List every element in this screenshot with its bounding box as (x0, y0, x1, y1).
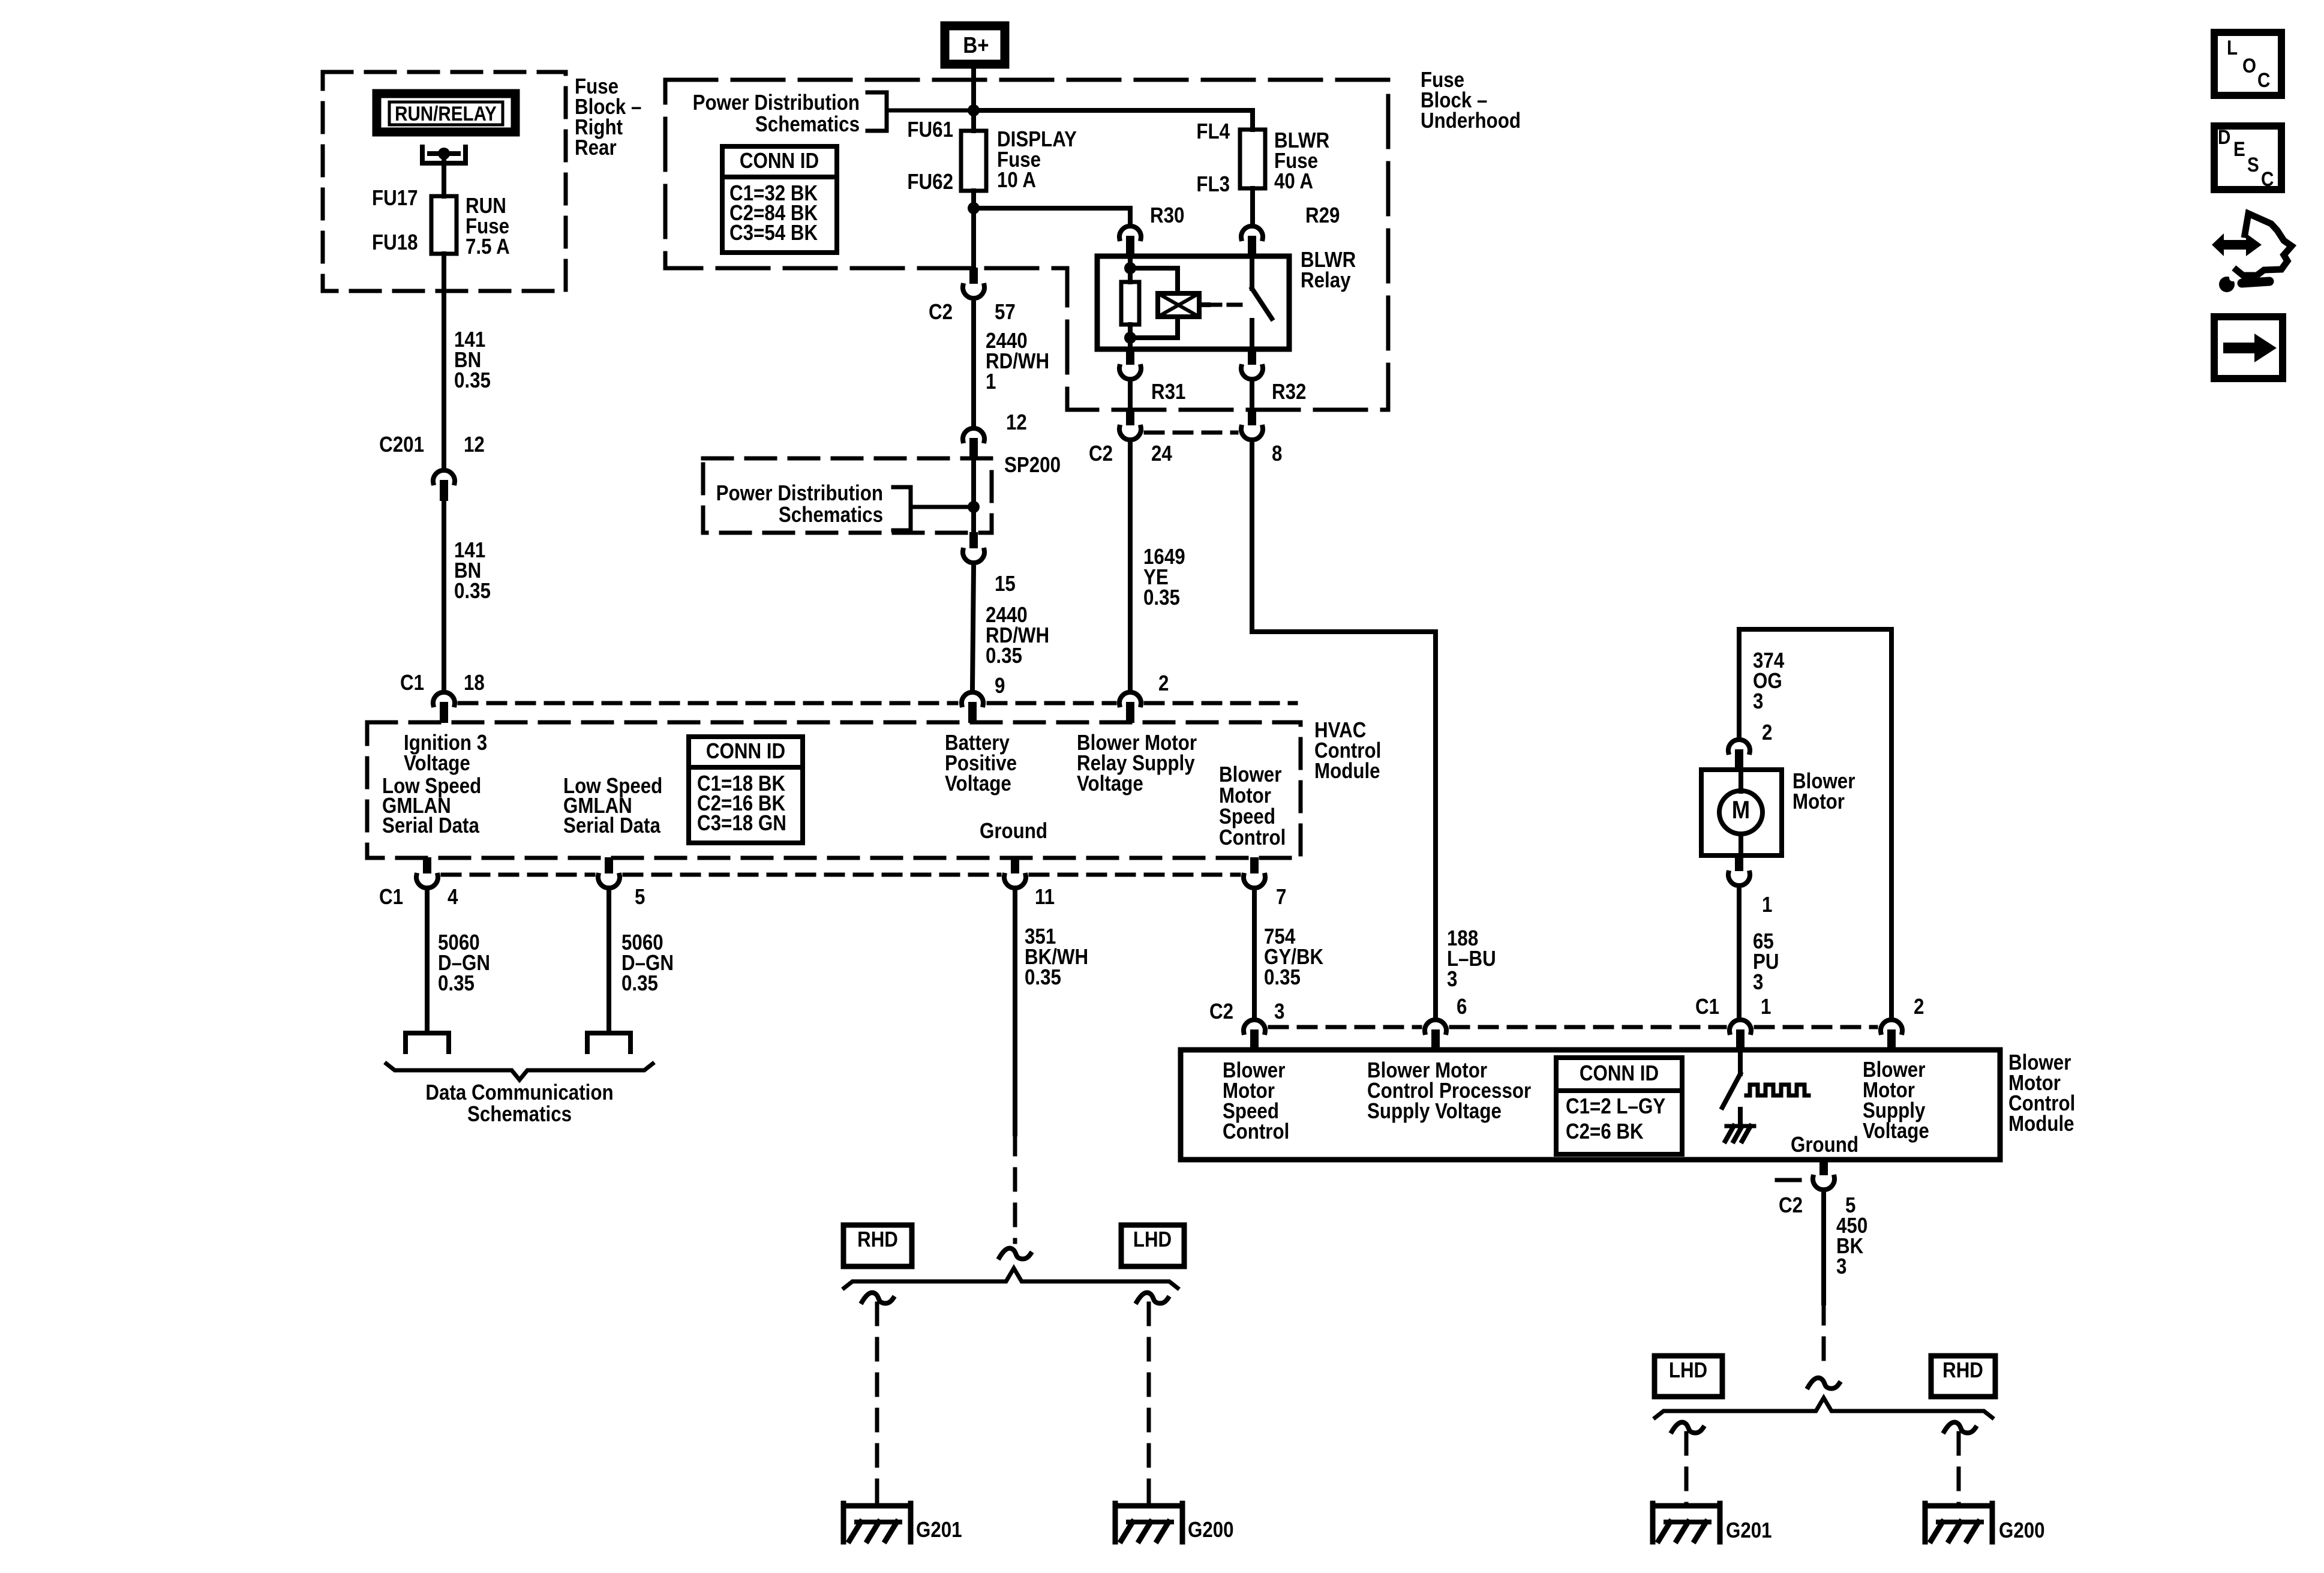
node RHD (left group) (843, 1225, 912, 1266)
svg-text:FL4: FL4 (1196, 119, 1230, 144)
connector relay pin R31 (1126, 349, 1134, 365)
connector row dotted (BMCM top) (1270, 1025, 1876, 1029)
wire fuse to connector C201 (442, 254, 446, 467)
fuse RUN 7.5A (FU17/FU18) (431, 196, 457, 254)
connector row dotted (underhood) (1146, 431, 1236, 435)
connector row dotted (BMCM bottom) (1777, 1178, 1800, 1182)
svg-text:R32: R32 (1272, 380, 1306, 404)
svg-text:0.35: 0.35 (1143, 586, 1180, 610)
svg-text:Control: Control (1223, 1119, 1289, 1144)
svg-text:S: S (2247, 153, 2259, 176)
ground G200 (right) (1925, 1503, 1992, 1509)
svg-text:CONN ID: CONN ID (706, 739, 785, 764)
wire R32 to pin 8 (1250, 384, 1254, 411)
terminal GMLAN pin 5 (587, 1033, 630, 1052)
svg-text:C1: C1 (379, 885, 403, 909)
connector HVAC C1 pin 4 (423, 857, 431, 873)
svg-text:C1=2 L–GY: C1=2 L–GY (1566, 1094, 1665, 1119)
wire RHD leg to G201 (875, 1304, 879, 1505)
svg-text:L: L (2227, 36, 2238, 59)
svg-text:0.35: 0.35 (1264, 965, 1301, 990)
svg-text:Voltage: Voltage (1077, 772, 1143, 796)
connector SP200 pin 12 (969, 438, 978, 459)
wire C2 57 to SP200 (971, 303, 976, 425)
svg-text:Control: Control (1219, 825, 1286, 850)
svg-text:Rear: Rear (575, 136, 617, 160)
icon LOC box (2214, 32, 2281, 95)
svg-text:Voltage: Voltage (404, 751, 470, 776)
callout Power Distribution Schematics (SP200) (716, 481, 974, 530)
connector pin 8 (underhood) (1248, 409, 1256, 425)
svg-text:4: 4 (448, 885, 458, 909)
wire B+ down to FU61 (971, 68, 976, 131)
wire RHD leg to G200 (right) (1957, 1433, 1961, 1505)
svg-text:12: 12 (1006, 410, 1027, 435)
junction relay bottom (1124, 332, 1136, 344)
wire motor pin1 to BMCM C1 1 (1737, 890, 1742, 1016)
svg-text:11: 11 (1035, 885, 1055, 909)
label Data Communication Schematics (425, 1080, 613, 1127)
junction relay top (1124, 262, 1136, 274)
connector SP200 pin 15 (969, 532, 978, 548)
svg-text:O: O (2242, 54, 2256, 77)
wire branch to FL4 fuse (974, 110, 1253, 130)
blower motor supply loop wire (1739, 629, 1891, 1016)
svg-text:0.35: 0.35 (986, 644, 1022, 668)
svg-text:3: 3 (1753, 689, 1763, 714)
connector relay pin R30 (1126, 236, 1134, 257)
wire R31 to C2 24 (1128, 384, 1133, 411)
svg-text:1: 1 (986, 370, 996, 394)
svg-text:Serial Data: Serial Data (563, 813, 660, 838)
svg-text:FU17: FU17 (372, 186, 418, 211)
wire C201 to HVAC C1 pin 18 (442, 500, 446, 689)
svg-text:24: 24 (1151, 442, 1172, 466)
svg-text:Data Communication: Data Communication (425, 1080, 613, 1105)
wire inside SP200 (971, 458, 976, 533)
svg-text:0.35: 0.35 (621, 971, 658, 996)
conn id table (HVAC) (689, 737, 803, 843)
connector motor pin 1 (1735, 855, 1743, 871)
splice ground option split (right) (1808, 1378, 1839, 1389)
svg-text:SP200: SP200 (1004, 453, 1061, 478)
wire SP200 to HVAC pin 9 (972, 568, 974, 689)
resistor relay internal (1121, 282, 1139, 325)
svg-text:C1: C1 (1695, 995, 1719, 1019)
svg-text:Motor: Motor (1792, 789, 1845, 814)
splice ground option split (999, 1248, 1031, 1259)
svg-text:C2=6 BK: C2=6 BK (1566, 1119, 1644, 1144)
node B+ battery positive terminal (945, 26, 1005, 64)
fuse BLWR 40A (FL4/FL3) (1240, 130, 1265, 188)
fuse block - right rear (dashed enclosure) (323, 72, 566, 291)
svg-text:D: D (2218, 125, 2230, 148)
svg-text:G200: G200 (1188, 1518, 1234, 1542)
connector BMCM C2 pin 3 (1250, 1029, 1259, 1050)
junction SP200 (968, 501, 980, 513)
svg-text:Module: Module (2008, 1112, 2074, 1136)
ground internal BMCM (1725, 1126, 1754, 1141)
svg-text:15: 15 (995, 572, 1016, 596)
svg-text:8: 8 (1272, 442, 1282, 466)
svg-text:7: 7 (1276, 885, 1286, 909)
splice SP200 (dashed enclosure) (703, 458, 992, 533)
svg-text:FU61: FU61 (907, 118, 953, 142)
svg-text:3: 3 (1753, 970, 1763, 995)
connector BMCM C1 pin 1 (1736, 1029, 1744, 1050)
svg-text:Voltage: Voltage (945, 772, 1011, 796)
splice LHD leg (1137, 1293, 1168, 1304)
ignition switch contact (422, 147, 466, 163)
connector relay pin R32 (1248, 349, 1256, 365)
callout Power Distribution Schematics (top) (693, 91, 974, 137)
node RHD (right group) (1931, 1356, 1995, 1397)
icon component location (arrow car wrench) (2212, 214, 2292, 292)
svg-text:7.5 A: 7.5 A (466, 235, 510, 259)
wire pin 11 ground drop (1013, 893, 1017, 1242)
ground G201 (left) (843, 1503, 911, 1509)
svg-text:5: 5 (635, 885, 645, 909)
node LHD (left group) (1121, 1225, 1184, 1266)
junction FU62 / R30 branch (968, 202, 980, 214)
BMCM switch element (1722, 1050, 1740, 1126)
svg-text:C1: C1 (400, 671, 424, 695)
icon next-page arrow box (2214, 317, 2283, 379)
svg-text:0.35: 0.35 (438, 971, 475, 996)
svg-text:G200: G200 (1999, 1518, 2045, 1543)
wire BMCM ground drop (1821, 1194, 1826, 1373)
connector C2 pin 57 (underhood bottom) (969, 268, 978, 284)
relay coil (box with X) (1158, 293, 1199, 317)
svg-text:E: E (2233, 137, 2245, 160)
svg-text:M: M (1732, 796, 1750, 824)
wire LHD leg to G200 (1147, 1304, 1151, 1505)
svg-text:FU62: FU62 (907, 170, 953, 194)
svg-text:Voltage: Voltage (1863, 1119, 1929, 1143)
wire FL3 down to R29 (1250, 188, 1255, 223)
svg-text:Ground: Ground (980, 819, 1047, 843)
svg-text:12: 12 (464, 433, 485, 457)
svg-text:2: 2 (1158, 671, 1169, 696)
svg-text:RHD: RHD (857, 1227, 898, 1252)
junction B+ / FL4 branch (968, 104, 980, 116)
svg-text:3: 3 (1274, 999, 1284, 1024)
brace data communication (386, 1064, 653, 1080)
terminal GMLAN pin 4 (406, 1033, 449, 1052)
connector BMCM pin 2 (1887, 1029, 1896, 1050)
HVAC control module (dashed box) (367, 722, 1301, 858)
splice LHD leg (right) (1672, 1422, 1703, 1433)
fuse DISPLAY 10A (FU61/FU62) (961, 131, 986, 191)
relay coil feed wire (1128, 256, 1133, 282)
svg-text:Underhood: Underhood (1421, 109, 1521, 133)
brace ground options (left group) (844, 1268, 1178, 1288)
relay branch to coil (1130, 268, 1178, 293)
ground G200 (left) (1115, 1503, 1182, 1509)
svg-text:57: 57 (995, 300, 1016, 325)
svg-text:9: 9 (995, 674, 1005, 698)
svg-text:Power Distribution: Power Distribution (693, 91, 860, 115)
svg-text:18: 18 (464, 671, 485, 695)
svg-text:Supply Voltage: Supply Voltage (1367, 1099, 1502, 1124)
relay BLWR (outline) (1097, 256, 1289, 349)
connector HVAC pin 11 (1011, 857, 1019, 873)
wire branch to relay R30 (974, 208, 1130, 223)
svg-text:C3=54 BK: C3=54 BK (729, 221, 818, 245)
relay switch contact (1252, 256, 1272, 349)
svg-text:C2: C2 (1209, 999, 1233, 1024)
connector row dotted (HVAC bottom) (443, 873, 1239, 877)
svg-text:C: C (2261, 167, 2274, 190)
svg-text:RHD: RHD (1942, 1358, 1983, 1383)
svg-text:0.35: 0.35 (454, 579, 491, 604)
svg-text:G201: G201 (916, 1518, 962, 1542)
wire RUN/RELAY to fuse FU17 (442, 154, 446, 196)
PWM waveform symbol (1746, 1085, 1809, 1095)
svg-text:LHD: LHD (1669, 1358, 1707, 1383)
node LHD (right group) (1655, 1356, 1722, 1397)
connector C201 pin 12 (440, 480, 448, 501)
wire pin 5 to terminal (606, 893, 611, 1033)
wire pin 8 to blower motor control module pin 6 (1252, 445, 1436, 1016)
svg-text:FL3: FL3 (1196, 172, 1230, 197)
svg-text:1: 1 (1761, 995, 1771, 1019)
svg-text:LHD: LHD (1133, 1227, 1172, 1252)
svg-text:2: 2 (1762, 721, 1772, 745)
svg-text:40 A: 40 A (1274, 169, 1313, 194)
svg-text:G201: G201 (1726, 1518, 1772, 1543)
conn id table (BMCM) (1556, 1058, 1682, 1154)
svg-text:10 A: 10 A (997, 168, 1036, 193)
ground G201 (right) (1653, 1503, 1720, 1509)
wire LHD leg to G201 (right) (1685, 1433, 1689, 1505)
wire pin 7 to BMCM C2 3 (1252, 893, 1257, 1016)
svg-text:C201: C201 (379, 433, 424, 457)
svg-text:Schematics: Schematics (467, 1102, 572, 1127)
svg-text:Power Distribution: Power Distribution (716, 481, 883, 506)
svg-text:Module: Module (1314, 759, 1380, 784)
connector HVAC pin 5 (605, 857, 613, 873)
wire pin 4 to terminal (425, 893, 430, 1033)
svg-text:C2: C2 (1779, 1193, 1803, 1218)
svg-text:R31: R31 (1151, 380, 1185, 404)
svg-text:C2: C2 (1089, 442, 1113, 466)
svg-text:2: 2 (1914, 995, 1924, 1019)
svg-text:Relay: Relay (1301, 268, 1351, 293)
svg-text:RUN/RELAY: RUN/RELAY (395, 102, 497, 125)
svg-text:C: C (2257, 68, 2270, 91)
connector relay pin R29 (1248, 236, 1256, 257)
svg-text:R30: R30 (1150, 203, 1184, 228)
svg-text:Ground: Ground (1791, 1133, 1858, 1157)
blower motor control module (outline) (1181, 1050, 2000, 1160)
connector HVAC pin 9 (968, 702, 977, 723)
connector HVAC pin 2 (1126, 702, 1134, 723)
brace ground options (right group) (1655, 1398, 1992, 1418)
fuse block - underhood (dashed enclosure) (665, 80, 1388, 410)
svg-text:Serial Data: Serial Data (382, 813, 479, 838)
svg-text:R29: R29 (1305, 203, 1340, 228)
connector BMCM pin 6 (1431, 1029, 1440, 1050)
connector row dotted (HVAC top) (460, 701, 1296, 706)
svg-text:0.35: 0.35 (1025, 965, 1061, 990)
RUN/RELAY ignition voltage box (377, 94, 515, 132)
svg-text:C3=18 GN: C3=18 GN (697, 811, 786, 836)
svg-text:3: 3 (1836, 1254, 1846, 1279)
connector HVAC pin 7 (1250, 857, 1259, 873)
wire resistor to relay bottom (1128, 325, 1133, 349)
splice RHD leg (right) (1944, 1422, 1975, 1433)
conn id table (underhood) (722, 146, 837, 253)
connector C2 pin 24 (underhood) (1126, 409, 1134, 425)
svg-text:C2: C2 (929, 300, 953, 325)
icon DESC box (2214, 125, 2281, 190)
connector motor pin 2 (1735, 749, 1743, 770)
svg-text:B+: B+ (963, 32, 989, 58)
svg-text:6: 6 (1457, 995, 1467, 1019)
svg-text:1: 1 (1762, 893, 1772, 917)
svg-text:0.35: 0.35 (454, 368, 491, 393)
svg-text:Schematics: Schematics (779, 503, 883, 527)
svg-text:3: 3 (1447, 967, 1457, 992)
svg-text:Schematics: Schematics (755, 112, 860, 137)
relay coil to contact dashed link (1199, 302, 1248, 307)
svg-text:CONN ID: CONN ID (740, 149, 819, 173)
splice RHD leg (862, 1293, 893, 1304)
connector BMCM C2 pin 5 (1819, 1159, 1828, 1175)
wire coil bottom branch (1130, 317, 1178, 338)
wire FU62 down to C2 57 (971, 191, 976, 269)
blower motor M1 (1701, 770, 1782, 855)
svg-text:FU18: FU18 (372, 230, 418, 255)
connector HVAC C1 pin 18 (440, 702, 448, 723)
svg-text:CONN ID: CONN ID (1580, 1061, 1659, 1086)
wire C2 24 down to HVAC pin 2 (1128, 445, 1133, 689)
